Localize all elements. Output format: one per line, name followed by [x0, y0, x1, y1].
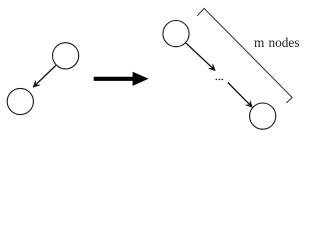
bracket m nodes — [197, 8, 292, 103]
ellipsis dot 2 — [219, 79, 221, 81]
arrowhead left pair — [33, 81, 40, 87]
node circle right-bottom — [250, 103, 276, 129]
edge arrow right upper — [186, 43, 215, 70]
edge arrow left pair — [34, 66, 56, 87]
arrowhead right upper — [209, 64, 216, 70]
svg-text:m nodes: m nodes — [254, 35, 300, 50]
edge arrow right lower — [228, 83, 252, 107]
ellipsis dot 1 — [216, 79, 218, 81]
ellipsis dot 3 — [222, 79, 224, 81]
node circle left-upper — [53, 43, 79, 69]
arrowhead right lower — [246, 101, 252, 107]
node circle right-top — [163, 20, 189, 46]
node circle left-lower — [7, 88, 33, 114]
big transform arrow — [94, 72, 149, 86]
